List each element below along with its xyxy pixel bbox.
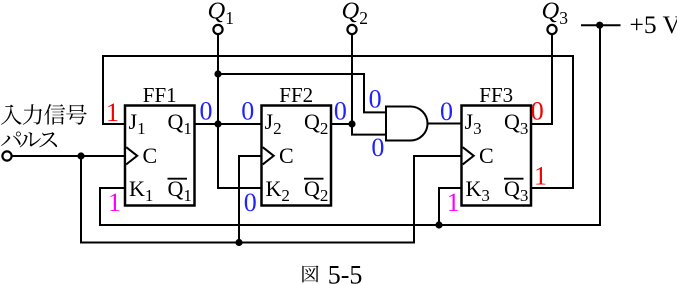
svg-text:C: C xyxy=(143,143,158,168)
svg-text:0: 0 xyxy=(334,96,347,125)
svg-text:1: 1 xyxy=(106,98,119,127)
svg-text:FF3: FF3 xyxy=(479,83,513,107)
svg-text:1: 1 xyxy=(447,188,460,217)
svg-text:C: C xyxy=(479,143,494,168)
svg-text:0: 0 xyxy=(241,96,254,125)
svg-text:0: 0 xyxy=(371,133,384,162)
svg-text:0: 0 xyxy=(369,85,382,114)
svg-text:0: 0 xyxy=(244,188,257,217)
svg-text:1: 1 xyxy=(534,161,547,190)
svg-text:0: 0 xyxy=(200,96,213,125)
svg-text:+5 V: +5 V xyxy=(630,10,677,39)
svg-text:0: 0 xyxy=(531,97,544,126)
svg-text:0: 0 xyxy=(440,97,453,126)
svg-text:FF2: FF2 xyxy=(279,83,313,107)
svg-text:5-5: 5-5 xyxy=(328,260,363,285)
svg-text:1: 1 xyxy=(108,188,121,217)
svg-text:C: C xyxy=(279,143,294,168)
svg-text:FF1: FF1 xyxy=(143,83,177,107)
